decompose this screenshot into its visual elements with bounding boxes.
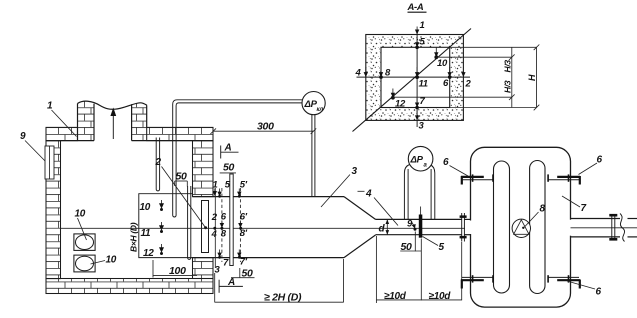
point 11 (furnace plane) [141, 222, 165, 239]
converging cone [344, 197, 376, 258]
label 9 [20, 131, 48, 164]
label 4 [358, 189, 399, 226]
pipe top wall [376, 218, 462, 220]
label 8 [524, 204, 546, 228]
labels row 7-7'-3 [215, 250, 248, 276]
svg-text:50: 50 [401, 241, 413, 253]
A-A point 1 [415, 20, 425, 35]
svg-text:ΔP: ΔP [304, 99, 318, 110]
svg-text:≥ 2H (D): ≥ 2H (D) [264, 292, 302, 304]
duct bottom wall [193, 257, 345, 259]
A-A point 10 [434, 48, 448, 70]
svg-text:6: 6 [596, 287, 602, 298]
svg-text:А: А [227, 277, 235, 288]
label 5 (pitot) [423, 237, 445, 254]
label 10 lower burner [91, 255, 117, 266]
svg-text:А-А: А-А [407, 2, 424, 13]
outlet pipe [571, 214, 637, 242]
svg-text:6′: 6′ [240, 212, 248, 223]
dimension 50 (between tubes) [175, 171, 188, 187]
flange pipe-exchanger [460, 213, 471, 242]
svg-text:5′: 5′ [240, 180, 248, 191]
svg-text:7: 7 [420, 96, 426, 107]
dimension >=2H (D) [215, 259, 344, 304]
svg-text:1: 1 [420, 20, 425, 31]
svg-text:4: 4 [365, 189, 372, 200]
section A-A title [407, 2, 427, 13]
svg-text:12: 12 [143, 248, 154, 259]
chimney left column (brick) [78, 101, 95, 141]
A-A duct wall (stippled) [366, 35, 464, 121]
baffle slot right [530, 161, 545, 294]
dimension 50 (line 7 to 7') [231, 268, 255, 280]
label 6 top-right [579, 155, 603, 175]
measuring line 5-6-8-7 (dashed) [221, 188, 223, 262]
svg-text:d: d [379, 224, 386, 235]
suction tube A (roof tap) [156, 138, 159, 191]
furnace right wall upper part (brick) [193, 141, 214, 197]
svg-text:10: 10 [437, 58, 448, 69]
tube to gauge (tube 1) [173, 100, 303, 217]
svg-text:ΔP: ΔP [410, 155, 424, 166]
svg-text:≥10d: ≥10d [429, 291, 452, 302]
label 1 [47, 101, 77, 137]
dimension 50 (line 5 to 5') [220, 162, 236, 174]
A-A dimension H [527, 45, 539, 111]
exchanger shell [465, 147, 575, 307]
svg-text:Н/3: Н/3 [503, 60, 513, 73]
label 6 top-left [443, 157, 468, 176]
svg-text:12: 12 [395, 99, 406, 110]
probe in section A [230, 174, 233, 266]
gauge dP_kl circle [302, 92, 325, 115]
pitot probe 5 (black bar) [419, 207, 423, 238]
svg-text:50: 50 [176, 171, 188, 183]
gauge down tube to duct [312, 114, 315, 196]
svg-text:4: 4 [211, 229, 218, 240]
A-A point 4 [355, 67, 369, 79]
port stub top-right [548, 174, 580, 184]
A-A diagonal [353, 29, 472, 132]
A-A vertical centerline [416, 30, 418, 127]
gauge dP_a [408, 146, 433, 171]
furnace inner ceiling line segments [61, 140, 193, 142]
A-A point 6 [443, 67, 452, 89]
furnace floor (brick) [46, 279, 213, 294]
svg-text:10: 10 [106, 255, 117, 266]
svg-text:50: 50 [242, 268, 254, 280]
A-A point 7 [415, 96, 426, 109]
label 3 (duct) [321, 166, 358, 207]
svg-text:300: 300 [257, 121, 274, 133]
probe 2 (through-wall probe) [202, 201, 209, 253]
label 2 [155, 157, 208, 229]
svg-text:2: 2 [211, 212, 218, 223]
svg-text:3: 3 [215, 265, 221, 276]
label B×H (D) [129, 222, 139, 252]
svg-text:10: 10 [75, 209, 86, 220]
dimension d [379, 219, 390, 234]
svg-text:кл: кл [317, 107, 324, 113]
point 9 [407, 219, 417, 231]
dimension 300 [210, 121, 316, 135]
port stub bottom-left [461, 275, 493, 288]
svg-text:50: 50 [223, 162, 235, 174]
svg-text:7: 7 [223, 258, 229, 269]
point 12 (furnace plane) [143, 244, 164, 259]
dimension 100 [153, 260, 197, 278]
furnace top wall right segment (brick) [147, 127, 213, 140]
svg-text:9: 9 [20, 131, 26, 142]
svg-text:5: 5 [439, 242, 445, 253]
outlet flange [609, 214, 617, 241]
label 6 bottom-right [567, 281, 602, 298]
A-A point 5 [415, 37, 426, 50]
labels row 2-6-6' [211, 212, 248, 229]
port stub bottom-right [548, 275, 580, 288]
measurement plane box B×H (D) [139, 194, 193, 258]
section mark A bottom [219, 277, 243, 293]
point 10 (furnace plane) [140, 200, 165, 213]
duct top wall [193, 196, 345, 198]
A-A point 11 [415, 67, 428, 90]
labels row 1-5-5' [213, 180, 248, 198]
probe tube 2 [188, 186, 191, 259]
A-A point 3 [415, 111, 425, 132]
svg-text:3: 3 [419, 121, 425, 132]
measuring line 1-2-4-3 [214, 188, 216, 268]
chimney break line (wavy top) [78, 101, 147, 109]
A-A dimension H/3 [503, 47, 515, 107]
label 10 upper burner [75, 209, 87, 241]
dots row center 4-8-8' [211, 227, 248, 240]
svg-text:10: 10 [140, 202, 151, 213]
duct axis centerline [61, 227, 471, 229]
svg-text:6: 6 [597, 155, 603, 166]
svg-text:4: 4 [355, 68, 362, 79]
chimney right column (brick) [132, 103, 147, 140]
svg-text:100: 100 [169, 265, 186, 277]
svg-text:6: 6 [443, 157, 449, 168]
A-A point 8 [379, 67, 391, 79]
A-A point 12 [391, 89, 406, 110]
svg-text:3: 3 [352, 166, 358, 177]
dimensions >=10d [376, 236, 461, 303]
gauge dP_a legs [404, 165, 434, 220]
furnace right wall lower part (brick) [193, 258, 214, 279]
svg-text:6: 6 [443, 78, 449, 89]
svg-text:11: 11 [419, 79, 428, 90]
svg-text:11: 11 [141, 228, 152, 239]
svg-text:8: 8 [540, 204, 546, 215]
furnace top wall left segment (brick) [46, 127, 78, 140]
svg-text:7: 7 [581, 203, 587, 214]
furnace left wall (brick) [46, 141, 61, 279]
svg-text:8: 8 [221, 229, 227, 240]
svg-text:1: 1 [47, 101, 53, 112]
svg-text:7′: 7′ [240, 257, 248, 268]
A-A horizontal centerline [357, 76, 471, 78]
svg-text:Н/3: Н/3 [503, 80, 513, 93]
measuring line 5'-6'-8'-7' (dashed) [239, 188, 241, 262]
pipe bottom wall [376, 234, 462, 236]
dimension 50 (9 to probe) [400, 232, 421, 253]
svg-text:9: 9 [407, 219, 413, 230]
A-A point 2 [461, 67, 471, 90]
A-A extension lines [393, 47, 537, 107]
sight port 9 in left wall [45, 146, 54, 179]
chimney flow arrow (up) [110, 108, 116, 140]
fan symbol 8 [512, 219, 530, 237]
port stub top-left [461, 174, 493, 184]
svg-text:Н: Н [527, 74, 537, 81]
svg-text:8′: 8′ [240, 228, 248, 239]
label 7 [562, 196, 587, 214]
svg-text:А: А [224, 143, 232, 154]
baffle slot left [494, 161, 510, 293]
burner 10 upper [74, 234, 95, 251]
svg-text:2: 2 [155, 157, 162, 168]
svg-text:В×Н (D): В×Н (D) [129, 222, 139, 252]
svg-text:2: 2 [465, 79, 472, 90]
svg-text:≥10d: ≥10d [384, 291, 407, 302]
section mark A top [221, 143, 239, 159]
burner 10 lower [74, 255, 95, 272]
